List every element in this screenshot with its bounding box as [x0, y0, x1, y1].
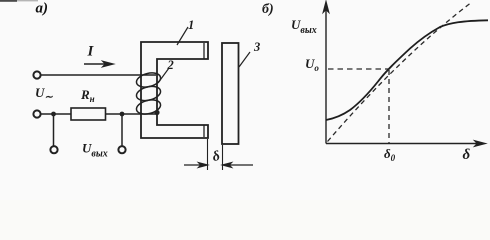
- wire resistor to coil: [106, 113, 158, 115]
- svg-text:I: I: [87, 44, 95, 60]
- svg-text:2: 2: [167, 58, 174, 72]
- svg-text:δ: δ: [211, 149, 221, 165]
- svg-text:Uо: Uо: [305, 56, 319, 73]
- page edge fragment: [0, 0, 17, 2]
- x-axis: [326, 141, 485, 146]
- core pole end face lines: [203, 43, 205, 59]
- terminal bottom-right: [118, 146, 125, 153]
- svg-text:3: 3: [253, 40, 260, 54]
- svg-text:Uвых: Uвых: [291, 17, 317, 36]
- y-axis: [323, 2, 328, 144]
- svg-text:δ0: δ0: [384, 146, 396, 163]
- coil 2: [135, 71, 162, 117]
- response curve: [326, 20, 488, 120]
- terminal mid-left: [33, 110, 40, 117]
- gap extension line right: [222, 145, 224, 170]
- svg-text:б): б): [262, 2, 274, 17]
- leader tick 3: [239, 52, 250, 67]
- svg-text:Rн: Rн: [80, 87, 95, 104]
- resistor Rн: [71, 108, 106, 120]
- wire top: [41, 74, 156, 76]
- svg-text:а): а): [36, 1, 49, 17]
- leader tick 1: [177, 27, 188, 45]
- gap dimension arrow left: [184, 163, 208, 168]
- svg-text:δ: δ: [463, 147, 471, 163]
- terminal top-left: [33, 71, 40, 78]
- dashed level U0: [328, 68, 389, 70]
- coil bottom connection blob: [154, 110, 159, 115]
- junction left: [51, 112, 56, 117]
- junction right: [120, 112, 125, 117]
- svg-text:U∼: U∼: [35, 85, 53, 103]
- svg-text:1: 1: [188, 18, 194, 32]
- svg-text:Uвых: Uвых: [82, 141, 108, 160]
- gap dimension arrow right: [223, 163, 254, 168]
- core 1 (C-shaped magnetic core): [141, 42, 208, 138]
- wire down left: [53, 114, 55, 146]
- current arrow I: [84, 61, 113, 66]
- plate 3 (armature): [222, 43, 239, 144]
- wire to resistor: [41, 113, 71, 115]
- wire down right: [121, 114, 123, 146]
- dashed tangent line: [328, 2, 473, 142]
- terminal bottom-left: [50, 146, 57, 153]
- dashed drop δ0: [388, 70, 390, 143]
- leader tick 2: [158, 68, 169, 83]
- gap extension line left: [207, 139, 209, 170]
